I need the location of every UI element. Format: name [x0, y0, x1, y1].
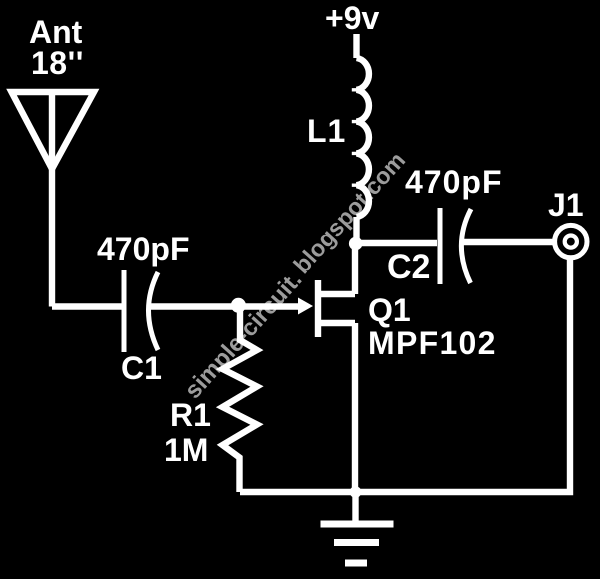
svg-text:L1: L1 — [307, 113, 346, 149]
svg-text:R1: R1 — [170, 397, 211, 433]
svg-text:C2: C2 — [387, 248, 430, 286]
svg-text:J1: J1 — [548, 187, 584, 223]
svg-text:Q1: Q1 — [368, 292, 411, 328]
svg-text:470pF: 470pF — [405, 164, 502, 200]
svg-text:470pF: 470pF — [97, 231, 189, 267]
svg-text:+9v: +9v — [325, 0, 379, 36]
svg-text:18'': 18'' — [31, 45, 84, 81]
svg-text:MPF102: MPF102 — [368, 325, 497, 361]
svg-text:C1: C1 — [121, 350, 162, 386]
svg-text:1M: 1M — [164, 432, 208, 468]
